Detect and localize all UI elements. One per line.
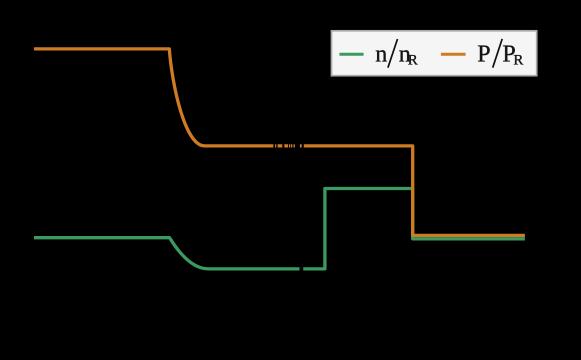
svg-text:n: n bbox=[375, 41, 387, 67]
svg-text:P: P bbox=[477, 41, 490, 67]
svg-text:R: R bbox=[408, 52, 418, 68]
svg-text:R: R bbox=[513, 52, 523, 68]
